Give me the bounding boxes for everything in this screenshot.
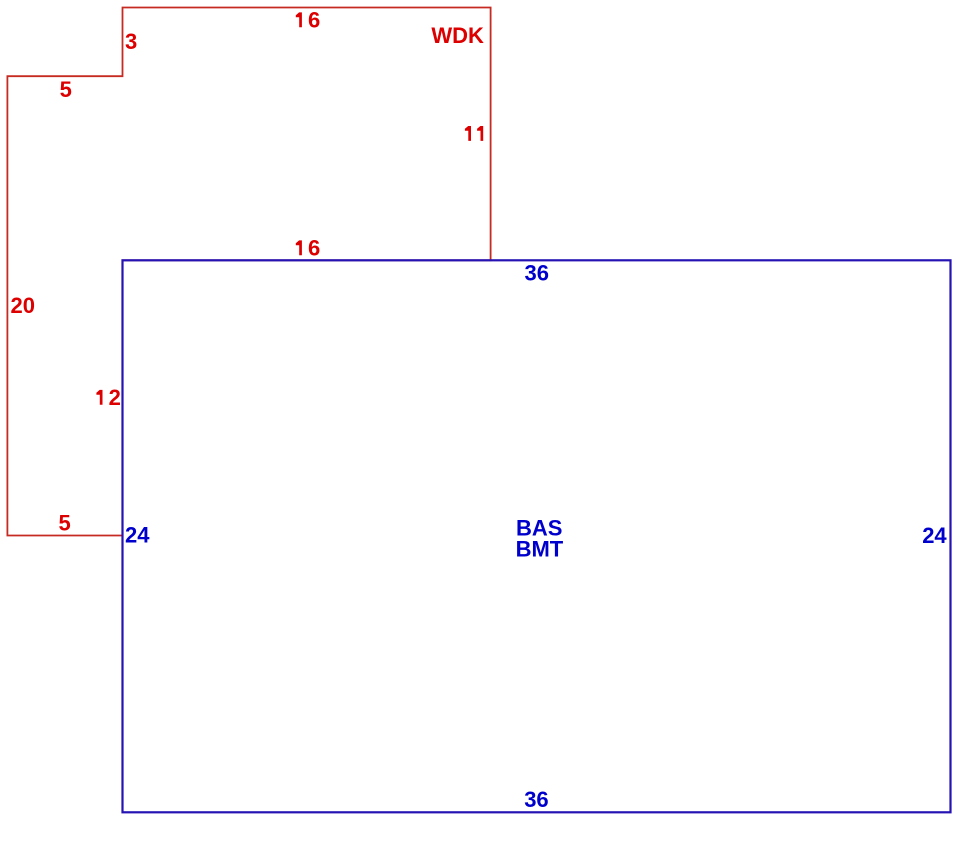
dimension label 3 (deck upper-left step) bbox=[125, 29, 137, 54]
area label BMT bbox=[516, 537, 564, 562]
dimension label 24 (basement right edge) bbox=[922, 523, 947, 548]
svg-text:24: 24 bbox=[922, 523, 947, 548]
svg-text:24: 24 bbox=[125, 523, 150, 548]
dimension label 16 (deck bottom shared edge) bbox=[296, 235, 320, 260]
dimension label 12 (deck shared left edge) bbox=[96, 385, 120, 410]
svg-text:3: 3 bbox=[125, 29, 137, 54]
dimension label 16 (deck top edge) bbox=[296, 7, 320, 32]
dimension label 36 (basement bottom edge) bbox=[524, 787, 548, 812]
dimension label 11 (deck right edge) bbox=[465, 126, 483, 141]
dimension label 5 (deck bottom edge) bbox=[59, 510, 71, 535]
deck WDK outline bbox=[7, 8, 490, 536]
svg-text:2: 2 bbox=[109, 385, 121, 410]
svg-text:WDK: WDK bbox=[431, 23, 484, 48]
svg-text:6: 6 bbox=[308, 7, 320, 32]
svg-text:36: 36 bbox=[524, 787, 548, 812]
svg-text:5: 5 bbox=[59, 510, 71, 535]
dimension label 24 (basement left edge) bbox=[125, 523, 150, 548]
svg-text:36: 36 bbox=[525, 261, 549, 286]
svg-text:20: 20 bbox=[11, 293, 35, 318]
svg-text:5: 5 bbox=[60, 77, 72, 102]
dimension label 36 (basement top edge) bbox=[525, 261, 549, 286]
svg-text:BMT: BMT bbox=[516, 537, 564, 562]
svg-text:6: 6 bbox=[308, 235, 320, 260]
area label BAS bbox=[516, 515, 562, 540]
dimension label 20 (deck left edge) bbox=[11, 293, 35, 318]
basement BAS/BMT rectangle bbox=[123, 260, 951, 812]
dimension label 5 (deck upper step) bbox=[60, 77, 72, 102]
area label WDK (wood deck) bbox=[431, 23, 484, 48]
